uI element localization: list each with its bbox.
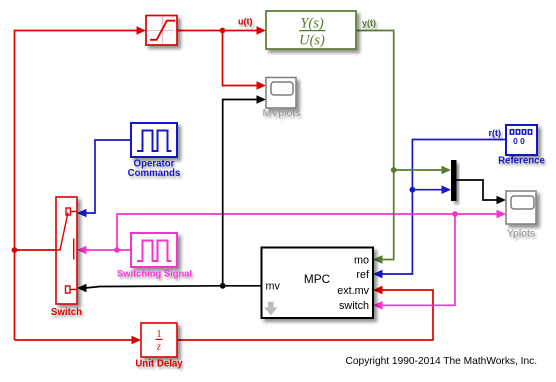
svg-text:u(t): u(t) bbox=[238, 16, 253, 26]
arrowhead into Yplots input 2 bbox=[497, 210, 507, 219]
wire: magenta down to MPC switch input bbox=[381, 214, 455, 305]
saturation icon axes bbox=[149, 18, 175, 44]
block: Unit Delay bbox=[141, 323, 177, 357]
svg-text:z: z bbox=[156, 341, 161, 352]
block: Operator Commands pulse generator bbox=[131, 123, 177, 157]
svg-text:Switching Signal: Switching Signal bbox=[117, 268, 192, 279]
svg-text:Switch: Switch bbox=[51, 307, 82, 318]
node: black junction on mv line bbox=[220, 283, 226, 289]
Switch port 1 marker bbox=[66, 208, 77, 215]
svg-text:1: 1 bbox=[157, 329, 162, 340]
arrowhead into MVplots input 2 bbox=[257, 95, 267, 104]
wire: blue Operator Commands output to Switch input 1 bbox=[85, 140, 131, 213]
svg-text:ext.mv: ext.mv bbox=[337, 285, 369, 297]
wire: black MPC mv output to Switch input 3 bbox=[85, 286, 262, 288]
arrowhead into MPC mo bbox=[373, 255, 383, 264]
svg-text:mo: mo bbox=[354, 254, 369, 266]
block: Transfer Fcn Y(s)/U(s) bbox=[266, 11, 356, 49]
svg-text:Yplots: Yplots bbox=[507, 228, 535, 240]
arrowhead into MPC ext.mv bbox=[373, 286, 383, 295]
wire: blue branch to Mux input 2 bbox=[412, 189, 443, 191]
block: Mux bbox=[451, 160, 457, 201]
svg-text:MPC: MPC bbox=[304, 272, 331, 286]
svg-text:Reference: Reference bbox=[498, 156, 545, 167]
node: magenta junction right bbox=[452, 211, 458, 217]
block: Yplots scope bbox=[506, 191, 536, 224]
Switch lever bbox=[56, 213, 68, 251]
svg-text:U(s): U(s) bbox=[299, 32, 325, 48]
wire: magenta Switching Signal output to Switch input 2 bbox=[85, 249, 131, 251]
arrowhead into Unit Delay input bbox=[132, 336, 142, 345]
wire: red bottom rail into Unit Delay bbox=[15, 339, 134, 341]
arrowhead into MPC ref bbox=[373, 270, 383, 279]
svg-text:Commands: Commands bbox=[128, 168, 181, 179]
arrowhead into Switch input 2 bbox=[77, 246, 87, 255]
wire: red feedback left vertical + top horizontal into Saturation bbox=[15, 31, 139, 341]
svg-text:Copyright 1990-2014 The MathWo: Copyright 1990-2014 The MathWorks, Inc. bbox=[346, 356, 538, 367]
block: MVplots scope bbox=[266, 78, 296, 109]
Switch threshold marker bbox=[73, 239, 75, 260]
block: Switch bbox=[56, 197, 77, 304]
arrowhead into Switch input 3 bbox=[77, 284, 87, 293]
wire: blue Reference output down to MPC ref bbox=[381, 140, 506, 275]
svg-text:MVplots: MVplots bbox=[263, 107, 301, 119]
arrowhead into Transfer Fcn input bbox=[257, 26, 267, 35]
svg-text:Y(s): Y(s) bbox=[300, 16, 324, 32]
arrowhead into MPC switch bbox=[373, 301, 383, 310]
wire: magenta up and across to Yplots input 2 bbox=[117, 214, 498, 250]
arrowhead into Switch input 1 bbox=[77, 209, 87, 218]
wire: red Switch output to left rail bbox=[15, 249, 57, 251]
wire: black branch up to MVplots input 2 bbox=[223, 100, 258, 286]
node: red junction u(t) bbox=[220, 28, 226, 34]
arrowhead into Mux input 1 bbox=[442, 166, 452, 175]
Switch port 3 marker bbox=[66, 286, 78, 293]
Operator Commands pulse icon bbox=[137, 131, 172, 152]
wire: red Saturation output to junction to Transfer Fcn bbox=[177, 30, 258, 32]
wire: black Mux output to Yplots input 1 bbox=[456, 180, 498, 200]
block: Saturation bbox=[146, 16, 177, 46]
node: red junction at switch output feedback bbox=[12, 247, 18, 253]
svg-text:0 0: 0 0 bbox=[513, 136, 525, 146]
svg-text:r(t): r(t) bbox=[489, 128, 502, 138]
svg-text:ref: ref bbox=[356, 269, 370, 281]
arrowhead into Mux input 2 bbox=[442, 185, 452, 194]
svg-text:mv: mv bbox=[266, 280, 281, 292]
MPC gray arrow icon bbox=[264, 302, 278, 316]
arrowhead into Saturation input bbox=[137, 26, 147, 35]
Unit Delay fraction bar bbox=[156, 338, 163, 340]
Switching Signal pulse icon bbox=[137, 241, 172, 262]
wire: green Transfer Fcn output y(t) down to MPC mo bbox=[356, 31, 394, 260]
svg-text:switch: switch bbox=[339, 300, 369, 312]
Transfer Fcn fraction bar bbox=[299, 30, 326, 32]
node: green junction to mux bbox=[391, 167, 397, 173]
node: magenta junction near Switching Signal bbox=[114, 247, 120, 253]
wire: red Unit Delay output to MPC ext.mv bbox=[177, 290, 433, 340]
MVplots scope screen icon bbox=[271, 82, 293, 95]
arrowhead into Yplots input 1 bbox=[497, 196, 507, 205]
svg-text:y(t): y(t) bbox=[362, 18, 376, 28]
wire: red branch down to MVplots input 1 bbox=[223, 31, 259, 86]
arrowhead into MVplots input 1 bbox=[257, 81, 267, 90]
block: Reference signal builder bbox=[506, 125, 537, 155]
Reference icon squares bbox=[510, 130, 531, 134]
svg-text:Unit Delay: Unit Delay bbox=[135, 359, 183, 370]
wire: green branch to Mux input 1 bbox=[394, 169, 443, 171]
block: Switching Signal pulse generator bbox=[131, 233, 177, 267]
block: MPC controller bbox=[262, 248, 374, 319]
node: blue junction to mux bbox=[410, 187, 416, 193]
saturation icon curve bbox=[150, 21, 175, 40]
Yplots scope screen icon bbox=[511, 196, 534, 209]
